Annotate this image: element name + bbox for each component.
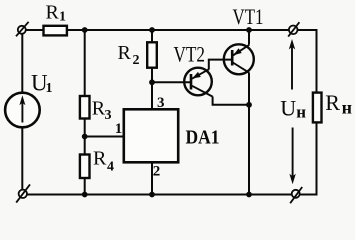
wire R2 to DA1 pin 3: [151, 68, 153, 109]
svg-text:1: 1: [59, 10, 66, 25]
node: junction top rail / VT1 emitter: [246, 27, 252, 33]
wire VT2 collector to VT1 collector line: [213, 97, 249, 105]
op-amp DA1 box: [124, 109, 178, 162]
svg-text:R: R: [93, 147, 107, 169]
svg-text:R: R: [46, 2, 60, 24]
load resistor Rn: [313, 93, 322, 123]
svg-text:3: 3: [157, 95, 165, 111]
transistor VT1: [224, 44, 254, 74]
transistor VT2: [184, 68, 212, 97]
node: junction VT2 collector / VT1 collector: [246, 102, 252, 108]
resistor R2: [147, 42, 157, 67]
wire bottom rail: [27, 194, 292, 196]
wire VT1 collector to bottom rail: [248, 73, 250, 195]
node: junction top rail / R2: [149, 27, 155, 33]
node: junction bottom rail / VT1 collector: [246, 192, 252, 198]
terminal input top-left: [16, 22, 29, 37]
svg-text:н: н: [342, 97, 352, 117]
wire left column: top terminal to U1: [21, 34, 23, 92]
svg-text:1: 1: [46, 81, 53, 96]
resistor R1: [44, 26, 67, 36]
wire right rail below Rn to bottom corner: [300, 123, 317, 195]
svg-text:4: 4: [107, 160, 114, 175]
wire top rail: R1 to top-right terminal: [67, 29, 289, 31]
voltage arrow Un upper: [289, 39, 295, 90]
svg-text:DA1: DA1: [186, 127, 220, 149]
node: junction bottom rail / R4: [82, 192, 88, 198]
voltage arrow Un lower: [289, 128, 295, 185]
svg-text:1: 1: [115, 121, 123, 137]
resistor R4: [80, 155, 90, 179]
terminal output top-right: [288, 22, 299, 36]
wire left column: U1 to bottom terminal: [21, 128, 23, 190]
node: junction bottom rail / pin 2: [149, 192, 155, 198]
terminal input bottom-left: [16, 184, 30, 202]
wire R3 column top: [84, 30, 86, 96]
svg-text:U: U: [280, 95, 296, 120]
wire VT2 emitter to VT1 base: [209, 60, 232, 70]
svg-text:2: 2: [133, 53, 140, 68]
svg-text:R: R: [325, 90, 340, 115]
resistor R3: [80, 96, 90, 119]
wire VT2 base: [152, 81, 191, 83]
wire R2 column top: [151, 30, 153, 42]
terminal output bottom-right: [290, 187, 302, 203]
wire top rail: terminal to right corner: [297, 30, 316, 92]
wire R4 to bottom rail: [84, 178, 86, 195]
svg-text:VT2: VT2: [174, 42, 206, 67]
wire node 1: divider junction to DA1 pin 1: [85, 136, 123, 138]
wire top rail left: terminal to R1: [26, 29, 44, 31]
svg-text:н: н: [296, 103, 306, 122]
node: junction top rail / divider: [82, 27, 88, 33]
svg-text:VT1: VT1: [233, 4, 264, 29]
wire VT1 emitter to top rail: [248, 30, 250, 45]
node: junction divider R3 R4: [82, 134, 88, 140]
svg-text:3: 3: [105, 108, 112, 123]
node: junction R2 / VT2 base / pin 3: [149, 79, 155, 85]
wire R3 to R4: [84, 119, 86, 155]
source U1: [5, 93, 40, 128]
svg-text:2: 2: [153, 163, 161, 179]
svg-text:R: R: [118, 42, 132, 64]
wire DA1 pin 2 to bottom rail: [151, 164, 153, 195]
